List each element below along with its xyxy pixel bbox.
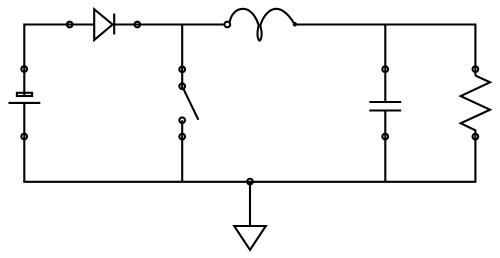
switch S1 lower terminal circle bbox=[179, 134, 185, 140]
capacitor C1 bottom plate bbox=[369, 109, 401, 111]
wire: diode cathode to inductor left terminal bbox=[114, 23, 224, 25]
inductor L1 left terminal circle bbox=[224, 22, 230, 28]
resistor R1 zigzag bbox=[461, 76, 490, 182]
inductor L1 coil bbox=[230, 9, 294, 41]
switch S1 blade (open) bbox=[184, 89, 199, 119]
wire: battery bottom lead to bottom rail bbox=[23, 103, 25, 182]
wire: bottom rail bbox=[23, 181, 476, 183]
wire: ground stem bbox=[249, 182, 251, 226]
wire: capacitor bottom plate to bottom rail bbox=[384, 111, 386, 182]
wire: inductor to top-right corner down to resistor bbox=[297, 25, 475, 76]
wire: capacitor branch from top rail to top plate bbox=[384, 25, 386, 103]
switch S1 throw contact circle bbox=[179, 117, 185, 123]
battery V1 bottom terminal circle bbox=[21, 134, 27, 140]
switch S1 pole circle bbox=[179, 83, 185, 89]
node circle on top-left wire bbox=[67, 22, 73, 28]
wire: switch branch from top rail down to switch pole bbox=[181, 25, 183, 91]
wire: switch throw stub down to bottom rail bbox=[181, 120, 183, 182]
resistor R1 bottom terminal circle bbox=[473, 134, 479, 140]
capacitor C1 bottom terminal circle bbox=[382, 134, 388, 140]
capacitor C1 top plate bbox=[369, 101, 401, 103]
diode D1 cathode bar bbox=[113, 14, 115, 35]
ground symbol triangle bbox=[234, 226, 266, 250]
inductor L1 right terminal dot bbox=[294, 23, 296, 25]
battery V1 positive plate (hollow rectangle) bbox=[17, 93, 32, 96]
node circle after diode bbox=[134, 22, 140, 28]
capacitor C1 top terminal circle bbox=[382, 66, 388, 72]
switch S1 upper terminal circle bbox=[179, 67, 185, 73]
battery V1 negative plate (long line) bbox=[9, 102, 41, 104]
wire: battery top lead and top-left rail to diode anode bbox=[24, 25, 94, 97]
diode D1 triangle (anode) bbox=[94, 9, 112, 40]
resistor R1 top terminal circle bbox=[473, 66, 479, 72]
node circle: ground junction on bottom rail bbox=[247, 179, 253, 185]
battery V1 top terminal circle bbox=[21, 66, 27, 72]
